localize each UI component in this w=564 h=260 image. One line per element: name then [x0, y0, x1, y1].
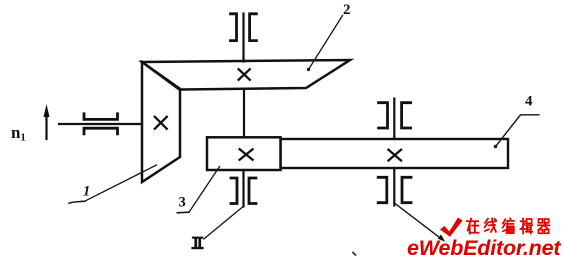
svg-text:1: 1: [83, 184, 90, 200]
label II (shaft II): [191, 237, 203, 250]
cross on gear 1: [155, 117, 167, 129]
bevel gear 1: [142, 62, 180, 182]
bearing at bottom of shaft II: [231, 178, 256, 204]
input speed arrow: [44, 104, 50, 139]
shaft III top segment: [393, 99, 395, 140]
svg-text:4: 4: [525, 94, 533, 110]
watermark chinese char bian: [503, 218, 514, 233]
leader line to watermark with arrowhead: [394, 203, 445, 242]
stray speck mark: [353, 253, 356, 256]
shaft III bottom segment: [393, 168, 395, 206]
cross on gear 2: [239, 69, 250, 80]
svg-text:3: 3: [179, 195, 186, 211]
spur gear 4: [281, 139, 509, 168]
watermark chinese char qi: [538, 219, 550, 233]
shaft II bottom segment: [242, 170, 244, 207]
cross on gear 4: [389, 150, 402, 161]
svg-text:eWebEditor.net: eWebEditor.net: [407, 236, 561, 260]
leader for label II: [204, 207, 243, 239]
bearing at top of shaft III: [379, 103, 411, 128]
leader for label 4: [494, 115, 539, 148]
watermark chinese char zai: [467, 219, 479, 234]
leader for label 3: [189, 167, 220, 213]
shaft II top segment: [242, 14, 244, 62]
leader for label 1: [86, 165, 157, 201]
input shaft I: [59, 123, 141, 125]
shaft II middle segment: [243, 90, 245, 138]
label n1: [11, 123, 26, 144]
bearing at top of shaft II: [231, 14, 257, 41]
leader for label 2: [307, 16, 343, 72]
watermark red checkmark: [440, 218, 463, 237]
bevel gear 2: [142, 60, 350, 90]
watermark chinese char ji: [520, 219, 532, 234]
watermark chinese char xian: [485, 219, 496, 232]
svg-text:2: 2: [343, 2, 351, 18]
cross on gear 3: [240, 149, 253, 160]
spur gear 3: [207, 137, 281, 170]
bearing on shaft I: [84, 114, 118, 134]
underline of label 3: [177, 211, 189, 214]
bearing at bottom of shaft III: [378, 177, 411, 202]
underline of label 1: [69, 201, 85, 203]
svg-text:n1: n1: [11, 123, 26, 144]
